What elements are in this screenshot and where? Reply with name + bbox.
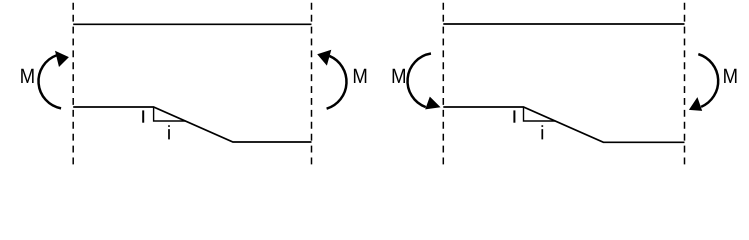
label i (diagram 1) bbox=[168, 125, 170, 139]
moment arrow left (diagram 1): arc bbox=[38, 55, 61, 108]
moment arrow right (diagram 2): head bbox=[690, 98, 702, 110]
label i (diagram 2) bbox=[541, 125, 543, 139]
left boundary dashed line (diagram 2) bbox=[442, 3, 444, 167]
moment arrow left (diagram 2): arc bbox=[408, 54, 431, 108]
moment arrow right (diagram 1): head bbox=[318, 50, 331, 64]
left boundary dashed line (diagram 1) bbox=[72, 3, 74, 167]
slope indicator triangle (diagram 1) bbox=[154, 107, 186, 121]
moment arrow right (diagram 1): arc bbox=[327, 56, 347, 109]
label l (diagram 1) bbox=[142, 110, 144, 122]
label M left (diagram 1) bbox=[21, 69, 33, 83]
right boundary dashed line (diagram 2) bbox=[684, 3, 686, 167]
moment arrow right (diagram 2): arc bbox=[698, 54, 718, 107]
top chord line (diagram 2) bbox=[443, 23, 684, 25]
moment arrow left (diagram 2): head bbox=[426, 97, 440, 109]
right boundary dashed line (diagram 1) bbox=[311, 3, 313, 167]
label l (diagram 2) bbox=[513, 110, 515, 122]
label M right (diagram 1) bbox=[354, 69, 366, 83]
moment arrow left (diagram 1): head bbox=[56, 52, 69, 67]
ground profile polyline (diagram 1) bbox=[73, 107, 311, 142]
label M left (diagram 2) bbox=[393, 69, 405, 83]
top chord line (diagram 1) bbox=[73, 23, 311, 25]
ground profile polyline (diagram 2) bbox=[443, 107, 684, 142]
slope indicator triangle (diagram 2) bbox=[524, 107, 556, 121]
label M right (diagram 2) bbox=[724, 69, 736, 83]
